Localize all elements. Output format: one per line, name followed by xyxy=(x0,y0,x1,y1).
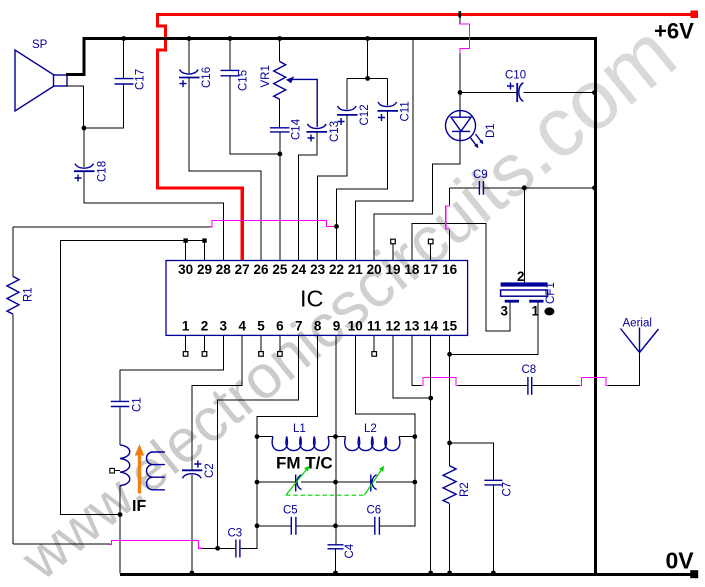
svg-text:13: 13 xyxy=(404,319,420,334)
wire IC pin 7 to C3/R1 node xyxy=(218,335,299,548)
svg-text:16: 16 xyxy=(442,262,458,277)
svg-text:L1: L1 xyxy=(293,423,306,435)
node VR1 ground xyxy=(277,36,282,41)
capacitor C11 (electrolytic) xyxy=(378,102,399,121)
svg-text:+6V: +6V xyxy=(654,19,694,44)
node pin29 xyxy=(202,238,206,242)
svg-text:12: 12 xyxy=(385,319,400,334)
pin 5 open terminal xyxy=(260,335,262,351)
capacitor C10 (electrolytic) xyxy=(460,92,517,94)
svg-text:26: 26 xyxy=(253,262,269,277)
pin 2 open terminal xyxy=(204,335,206,351)
trimmer 1 arrow (green) xyxy=(286,469,307,495)
ceramic filter CF1 xyxy=(523,188,525,283)
pin 1 open terminal xyxy=(185,335,187,351)
svg-text:22: 22 xyxy=(329,262,344,277)
svg-text:28: 28 xyxy=(216,262,232,277)
node tank right top xyxy=(412,434,417,439)
svg-text:30: 30 xyxy=(178,262,193,277)
capacitor C13 (electrolytic) xyxy=(307,124,328,142)
svg-text:C6: C6 xyxy=(367,505,382,517)
wire IC pin 21 to ground rail xyxy=(355,40,413,261)
svg-text:R1: R1 xyxy=(23,287,35,302)
wire IC pin 12 to ground column xyxy=(393,335,431,398)
node C9 at border xyxy=(592,185,597,190)
tank left column xyxy=(256,437,258,526)
wire C12 to IC pin 23 xyxy=(318,115,347,261)
svg-text:21: 21 xyxy=(348,262,364,277)
trimmer capacitor 1 xyxy=(296,475,302,492)
wire IC pin 13 to C8 (magenta bridges) xyxy=(412,335,421,385)
pin 17 open terminal xyxy=(430,244,432,261)
thick wire speaker plus to ground rail xyxy=(66,37,84,75)
svg-text:C12: C12 xyxy=(359,104,371,125)
wire R1 bottom with magenta bridge xyxy=(13,543,110,545)
node C15 ground xyxy=(228,36,233,41)
svg-text:0V: 0V xyxy=(666,548,695,574)
svg-text:3: 3 xyxy=(220,319,228,334)
capacitor C4 xyxy=(328,545,344,549)
capacitor C5 xyxy=(291,517,296,535)
wire D1 cathode to IC pin 20 xyxy=(374,141,460,261)
svg-text:C15: C15 xyxy=(238,70,250,91)
wire R1 top to IC pin 22 node xyxy=(13,226,209,228)
wire IF primary bottom to ground xyxy=(119,486,121,574)
node C16 ground xyxy=(187,36,192,41)
IF transformer secondary xyxy=(147,452,165,490)
resistor R2 xyxy=(449,354,451,466)
node pin15/CF1 xyxy=(447,352,452,357)
capacitor C8 xyxy=(528,377,532,395)
svg-text:C17: C17 xyxy=(135,69,147,90)
0V top ground rail xyxy=(84,37,597,40)
svg-text:IC: IC xyxy=(300,286,324,312)
wire C13 to IC pin 24 xyxy=(299,132,317,261)
wire C15 to node at C14 xyxy=(230,76,280,154)
node R1/C11/pin22 xyxy=(334,224,339,229)
svg-text:4: 4 xyxy=(238,319,246,334)
node C9/CF1 pin2 xyxy=(522,185,527,190)
IC body xyxy=(166,261,468,336)
pin 11 open terminal xyxy=(373,335,375,351)
node tank centre middle xyxy=(333,480,338,485)
pin 19 open terminal xyxy=(392,244,394,261)
svg-text:1: 1 xyxy=(182,319,190,334)
svg-text:20: 20 xyxy=(367,262,382,277)
IC top pin numbers 30..16 xyxy=(178,262,458,277)
wire node to C17 xyxy=(84,85,124,128)
svg-text:15: 15 xyxy=(442,319,458,334)
node R1/C3/pin7 xyxy=(215,546,220,551)
capacitor C12 (electrolytic) xyxy=(337,106,358,125)
node C7 ground xyxy=(491,571,496,576)
node C2 ground xyxy=(190,571,195,576)
trimmer 2 arrow (green) xyxy=(365,469,383,495)
svg-text:19: 19 xyxy=(385,262,400,277)
node R2 ground xyxy=(447,571,452,576)
node C4 ground xyxy=(333,571,338,576)
svg-text:24: 24 xyxy=(291,262,307,277)
wire IC pin 18 to CF1 pin 3 xyxy=(412,223,510,331)
trimmer capacitor 2 xyxy=(371,475,377,492)
right border ground wire xyxy=(594,37,597,576)
capacitor C6 xyxy=(375,517,380,535)
node tank left bottom xyxy=(255,523,260,528)
wire IC pin 8 to tank left column xyxy=(257,335,318,436)
svg-text:29: 29 xyxy=(197,262,212,277)
svg-text:C16: C16 xyxy=(201,67,213,88)
svg-text:C1: C1 xyxy=(132,397,144,412)
svg-text:FM T/C: FM T/C xyxy=(276,454,333,473)
wire C12/C11 tops to ground rail xyxy=(347,39,387,110)
wire aerial to C8 xyxy=(608,353,640,386)
capacitor C14 xyxy=(270,128,290,132)
svg-text:17: 17 xyxy=(423,262,438,277)
inductor L2 xyxy=(336,436,346,438)
svg-text:CF1: CF1 xyxy=(545,282,557,304)
svg-text:5: 5 xyxy=(257,319,265,334)
svg-text:SP: SP xyxy=(32,39,48,51)
svg-text:25: 25 xyxy=(272,262,288,277)
svg-text:C14: C14 xyxy=(291,118,303,140)
capacitor C2 (electrolytic) xyxy=(182,461,202,479)
capacitor C16 (electrolytic) xyxy=(188,39,190,73)
svg-text:C5: C5 xyxy=(283,505,298,517)
svg-text:R2: R2 xyxy=(459,482,471,497)
VR1 wiper arrow wire to C13 xyxy=(289,79,317,127)
svg-text:Aerial: Aerial xyxy=(623,318,652,330)
resistor R1 xyxy=(12,227,14,276)
node tank right middle xyxy=(412,480,417,485)
svg-text:3: 3 xyxy=(501,304,509,319)
wire IC pins 30,29 to IF transformer bottom xyxy=(60,241,204,515)
svg-text:23: 23 xyxy=(310,262,326,277)
capacitor C15 xyxy=(229,39,231,71)
svg-text:C7: C7 xyxy=(502,482,514,497)
tank right column xyxy=(414,437,416,483)
wire IC pin 4 to C2 xyxy=(192,335,242,470)
svg-text:14: 14 xyxy=(423,319,439,334)
IF transformer primary xyxy=(120,445,130,486)
svg-text:27: 27 xyxy=(235,262,250,277)
svg-text:11: 11 xyxy=(367,319,382,334)
svg-text:10: 10 xyxy=(348,319,363,334)
svg-text:18: 18 xyxy=(404,262,420,277)
capacitor C18 (electrolytic) xyxy=(83,128,85,167)
svg-text:IF: IF xyxy=(132,498,146,515)
wire CF1 pin1 to IC pin 15 xyxy=(450,303,538,443)
node pin14 ground xyxy=(428,571,433,576)
inductor L1 xyxy=(257,436,273,438)
wire bridge (magenta) over columns to pin 22 xyxy=(209,220,335,226)
LED D1 feed from +6V rail xyxy=(458,11,461,17)
speaker SP xyxy=(15,50,67,111)
capacitor C1 xyxy=(111,401,129,406)
svg-text:C9: C9 xyxy=(473,169,488,181)
svg-text:C3: C3 xyxy=(228,528,243,540)
+6V supply rail (red) xyxy=(156,13,697,16)
node speaker/C17/C18 xyxy=(82,126,87,131)
wire IC pin 10 to tank right column xyxy=(355,335,415,436)
node tank left top xyxy=(255,434,260,439)
svg-text:C11: C11 xyxy=(400,101,412,121)
LED D1 xyxy=(446,111,484,149)
trimmer gang dashed link (green) xyxy=(286,494,365,496)
node C12/C11 ground rail xyxy=(365,36,370,41)
IC bottom pin numbers 1..15 xyxy=(182,319,458,334)
node R2 top xyxy=(447,441,452,446)
svg-text:9: 9 xyxy=(333,319,341,334)
red wire from +6V rail to IC pin 27 xyxy=(158,15,243,261)
node D1/C10 xyxy=(458,90,463,95)
svg-text:C8: C8 xyxy=(522,364,537,376)
pin 6 open terminal xyxy=(279,335,281,351)
node tank centre bottom xyxy=(333,523,338,528)
wire C14 to IC pin 25 xyxy=(279,132,281,261)
wire IC pin 9 down tank centre column xyxy=(335,335,337,544)
svg-text:6: 6 xyxy=(276,319,284,334)
wire speaker minus to node xyxy=(66,86,84,128)
capacitor C9 xyxy=(450,187,479,189)
svg-text:C13: C13 xyxy=(329,121,341,142)
aerial xyxy=(621,328,659,353)
wire IC pin 14 to ground rail xyxy=(430,335,432,573)
svg-text:VR1: VR1 xyxy=(260,65,272,87)
capacitor C17 xyxy=(123,39,125,79)
svg-text:8: 8 xyxy=(314,319,322,334)
node C14/C15 junction xyxy=(278,152,283,157)
bottom ground rail xyxy=(120,573,697,576)
variable resistor VR1 xyxy=(279,39,281,62)
node C12/C11 tie xyxy=(365,76,370,81)
svg-text:7: 7 xyxy=(295,319,303,334)
trimmer capacitor row wire xyxy=(257,481,415,483)
node pin30 xyxy=(183,238,187,242)
wire C18 to IC pin 28 xyxy=(84,171,223,260)
node tank left middle xyxy=(255,480,260,485)
wire C16 to IC pin 26 xyxy=(189,78,261,261)
svg-text:2: 2 xyxy=(201,319,209,334)
capacitor C3 xyxy=(218,547,236,549)
IF transformer tap terminal xyxy=(115,470,121,472)
+6V rail end terminal xyxy=(691,11,699,19)
wire IC pin 3 to C1 xyxy=(120,335,223,401)
svg-text:L2: L2 xyxy=(364,423,377,435)
svg-text:D1: D1 xyxy=(485,123,497,138)
node IF/pins29-30 xyxy=(118,512,123,517)
svg-text:C2: C2 xyxy=(204,463,216,478)
node tank centre top xyxy=(333,434,338,439)
capacitor C7 xyxy=(450,443,494,480)
svg-text:2: 2 xyxy=(517,269,525,284)
IF tuning arrow (orange) xyxy=(138,454,141,494)
node pin12/pin14 xyxy=(428,396,433,401)
wire C11 to IC pin 22 xyxy=(337,111,388,261)
svg-text:C18: C18 xyxy=(97,161,109,182)
wire IC pin 16 to C9 (with magenta bridge) xyxy=(449,188,451,261)
svg-text:C4: C4 xyxy=(344,543,356,558)
0V rail end terminal xyxy=(690,570,698,578)
svg-text:C10: C10 xyxy=(505,70,526,82)
node C17 ground xyxy=(121,36,126,41)
node C10 at border xyxy=(592,90,597,95)
